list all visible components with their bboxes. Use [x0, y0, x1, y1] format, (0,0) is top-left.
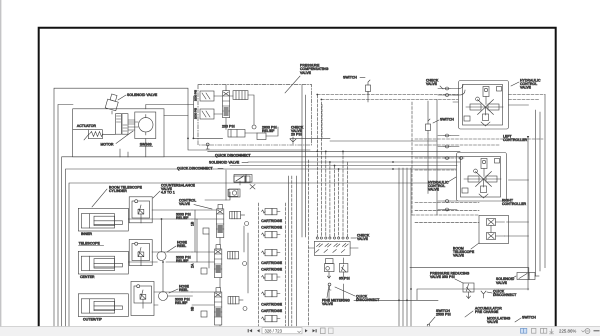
- shuttle circle 3: [243, 307, 247, 311]
- right area vertical wires: [528, 95, 545, 291]
- pressure valve 2000psi lower: [200, 109, 214, 119]
- nav first page: [248, 329, 252, 332]
- cylinder inner: [81, 214, 122, 228]
- svg-text:QUICK DISCONNECT: QUICK DISCONNECT: [177, 167, 213, 171]
- wire left vertical 3: [62, 157, 213, 336]
- svg-text:1B: 1B: [191, 221, 195, 226]
- pressure valve next to fine metering: [339, 258, 348, 272]
- trunk bundle bottom right: [399, 168, 411, 336]
- pressure reducing valve: [463, 283, 474, 299]
- control valve bank section 1 spool: [217, 205, 224, 238]
- swing pilot valve spool: [116, 114, 129, 135]
- control valve bank section 2 spool: [215, 245, 222, 278]
- right controller box: [457, 153, 507, 202]
- pilot coil valve 2: [228, 252, 239, 259]
- svg-text:CARTRIDGE: CARTRIDGE: [261, 225, 282, 229]
- box under solenoid: [228, 189, 238, 196]
- wire arrow on 528: [527, 136, 529, 139]
- solenoid valve bottom right: [517, 273, 539, 280]
- cartridge column rails: [258, 203, 285, 336]
- svg-text:CARTRIDGE: CARTRIDGE: [261, 219, 282, 223]
- svg-text:2500 PSI: 2500 PSI: [436, 313, 451, 317]
- svg-text:VALVE: VALVE: [453, 254, 465, 258]
- quick disconnect symbol br: [481, 291, 486, 298]
- solenoid valve top of bank: [234, 176, 250, 183]
- fine metering valve body: [325, 259, 335, 279]
- quick disconnect symbol under fine metering: [328, 283, 331, 286]
- pump spool P1: [223, 91, 230, 118]
- doc icons: [321, 328, 326, 334]
- pump wiring: [214, 85, 278, 136]
- svg-text:4.5 TO 1: 4.5 TO 1: [161, 191, 175, 195]
- svg-text:SOLENOID VALVE: SOLENOID VALVE: [209, 161, 240, 165]
- svg-text:20 PSI: 20 PSI: [291, 133, 302, 137]
- svg-text:OUTER/TIP: OUTER/TIP: [83, 318, 103, 322]
- swing circuit box: [73, 109, 164, 157]
- main dashed buses top: [317, 95, 545, 100]
- cartridge sec3 symbol b: [262, 316, 281, 322]
- view mode icons right: [521, 328, 527, 333]
- cartridge sec3 symbol a: [262, 291, 281, 297]
- svg-text:3B: 3B: [191, 306, 195, 311]
- svg-text:VALVE: VALVE: [357, 237, 369, 241]
- svg-text:65 PSI: 65 PSI: [339, 277, 350, 281]
- outer cylinder enclosure: [78, 294, 128, 317]
- svg-text:200 PSI: 200 PSI: [222, 125, 235, 129]
- svg-text:2A: 2A: [191, 263, 195, 268]
- swing motor M1: [128, 112, 156, 139]
- wires manifold area: [308, 248, 358, 300]
- pilot coil valve 1: [230, 211, 245, 218]
- svg-text:RELIEF: RELIEF: [262, 129, 274, 133]
- port box section 3: [201, 311, 207, 317]
- check valve pair mid 3: [444, 157, 464, 160]
- boom telescope valve box: [479, 216, 509, 244]
- distribution rows: [208, 151, 460, 169]
- cylinder outer: [81, 299, 122, 313]
- svg-text:CARTRIDGE: CARTRIDGE: [261, 303, 282, 307]
- wire left vertical 2: [58, 105, 73, 336]
- counterbalance valve 2: [129, 240, 152, 266]
- svg-text:TELESCOPE: TELESCOPE: [79, 242, 101, 246]
- cartridge sec1 symbol b: [262, 232, 281, 238]
- pilot coil valve 3: [228, 297, 243, 304]
- control valve bank section 3 spool: [215, 288, 222, 325]
- svg-text:RELIEF: RELIEF: [176, 216, 188, 220]
- check valve symbol: [290, 137, 296, 144]
- svg-text:REEL: REEL: [177, 244, 186, 248]
- cartridge sec2 symbol a: [262, 250, 281, 256]
- counterbalance valve 3: [131, 282, 154, 316]
- check valve pair mid 2: [444, 145, 450, 148]
- inner cylinder enclosure: [78, 208, 128, 231]
- svg-text:DISCONNECT: DISCONNECT: [493, 293, 516, 297]
- cartridge sec1 symbol a: [262, 209, 281, 215]
- svg-text:VALVE: VALVE: [300, 71, 312, 75]
- svg-text:MOTOR: MOTOR: [101, 142, 115, 146]
- check valves right mid: [444, 200, 450, 212]
- svg-text:2000 PSI: 2000 PSI: [194, 108, 198, 119]
- svg-text:VALVE: VALVE: [426, 82, 438, 86]
- cylinder center: [81, 256, 122, 270]
- svg-text:2000 PSI: 2000 PSI: [194, 90, 198, 101]
- svg-text:SWITCH: SWITCH: [440, 118, 454, 122]
- svg-text:CENTER: CENTER: [80, 275, 95, 279]
- relief valve 2800psi: [257, 133, 266, 140]
- switch symbol mid: [426, 119, 431, 134]
- outer enclosure wire: [54, 88, 310, 336]
- toolbar: [0, 327, 600, 336]
- svg-text:CYLINDER: CYLINDER: [109, 189, 127, 193]
- center cylinder enclosure: [78, 251, 128, 274]
- svg-text:CARTRIDGE: CARTRIDGE: [261, 261, 282, 265]
- port box section 1: [203, 228, 209, 234]
- port box section 2: [201, 268, 207, 274]
- svg-text:225.86%: 225.86%: [559, 329, 576, 334]
- wire pump feed vertical: [193, 96, 222, 138]
- svg-text:VALVE: VALVE: [496, 281, 508, 285]
- svg-text:RELIEF: RELIEF: [175, 301, 187, 305]
- svg-text:CARTRIDGE: CARTRIDGE: [261, 267, 282, 271]
- shuttle circle 2: [243, 262, 247, 266]
- relief valve 200psi: [228, 130, 245, 138]
- solenoid valve SV2: [234, 175, 252, 186]
- window edge: [0, 0, 2, 326]
- svg-text:VALVE: VALVE: [179, 202, 191, 206]
- svg-text:PRE CHARGE: PRE CHARGE: [475, 310, 499, 314]
- valve bank internal wires: [192, 192, 230, 305]
- manifold check valve block: [314, 237, 350, 255]
- svg-text:SWITCH: SWITCH: [343, 76, 357, 80]
- svg-text:ACTUATOR: ACTUATOR: [77, 124, 97, 128]
- svg-text:CONTROLLER: CONTROLLER: [502, 202, 527, 206]
- telescope group box: [69, 183, 437, 336]
- left controller box: [459, 81, 509, 130]
- svg-text:328 / 723: 328 / 723: [265, 328, 283, 333]
- svg-text:SWITCH: SWITCH: [522, 316, 536, 320]
- pressure valve 2000psi upper: [200, 91, 214, 101]
- svg-text:VALVE 350 PSI: VALVE 350 PSI: [430, 275, 455, 279]
- wire swing drops: [73, 105, 194, 158]
- trunk bundle verticals to manifold: [302, 85, 306, 237]
- switch symbol top: [366, 80, 371, 95]
- cartridge sec2 symbol b: [262, 274, 281, 280]
- check X symbol: [250, 185, 255, 190]
- counterbalance valve 1: [129, 197, 152, 223]
- solenoid valve (swing): [105, 93, 120, 110]
- quick disconnect row 1: [206, 146, 209, 149]
- pilot valve right of pump: [233, 91, 248, 100]
- page input box: [262, 328, 302, 334]
- svg-text:CONTROLLER: CONTROLLER: [503, 138, 528, 142]
- svg-text:VALVE: VALVE: [487, 320, 499, 324]
- section vertical links: [195, 210, 248, 293]
- shuttle circle 1: [245, 222, 249, 226]
- svg-text:RELIEF: RELIEF: [176, 259, 188, 263]
- svg-text:INNER: INNER: [81, 232, 93, 236]
- svg-text:VALVE: VALVE: [428, 188, 440, 192]
- actuator A1: [84, 130, 103, 140]
- pump group enclosure (dash-dot): [198, 85, 312, 145]
- wires cylinders to valve bank: [128, 210, 192, 305]
- check valve pair top: [444, 87, 450, 97]
- dashed rows right mid: [415, 139, 543, 222]
- svg-text:CARTRIDGE: CARTRIDGE: [261, 309, 282, 313]
- svg-text:VALVE: VALVE: [322, 302, 334, 306]
- hose reel 2: [159, 292, 168, 301]
- bottom right buses: [354, 268, 529, 301]
- misc wires right: [437, 95, 458, 215]
- svg-text:VALVE: VALVE: [520, 86, 532, 90]
- svg-text:REEL: REEL: [179, 288, 188, 292]
- check valve pair mid 1: [444, 134, 450, 137]
- hose reel 1: [157, 252, 166, 261]
- svg-text:SOLENOID VALVE: SOLENOID VALVE: [127, 93, 158, 97]
- regulator with gauge: [229, 189, 240, 197]
- wire left vertical 4: [66, 169, 214, 336]
- page frame: [39, 28, 556, 336]
